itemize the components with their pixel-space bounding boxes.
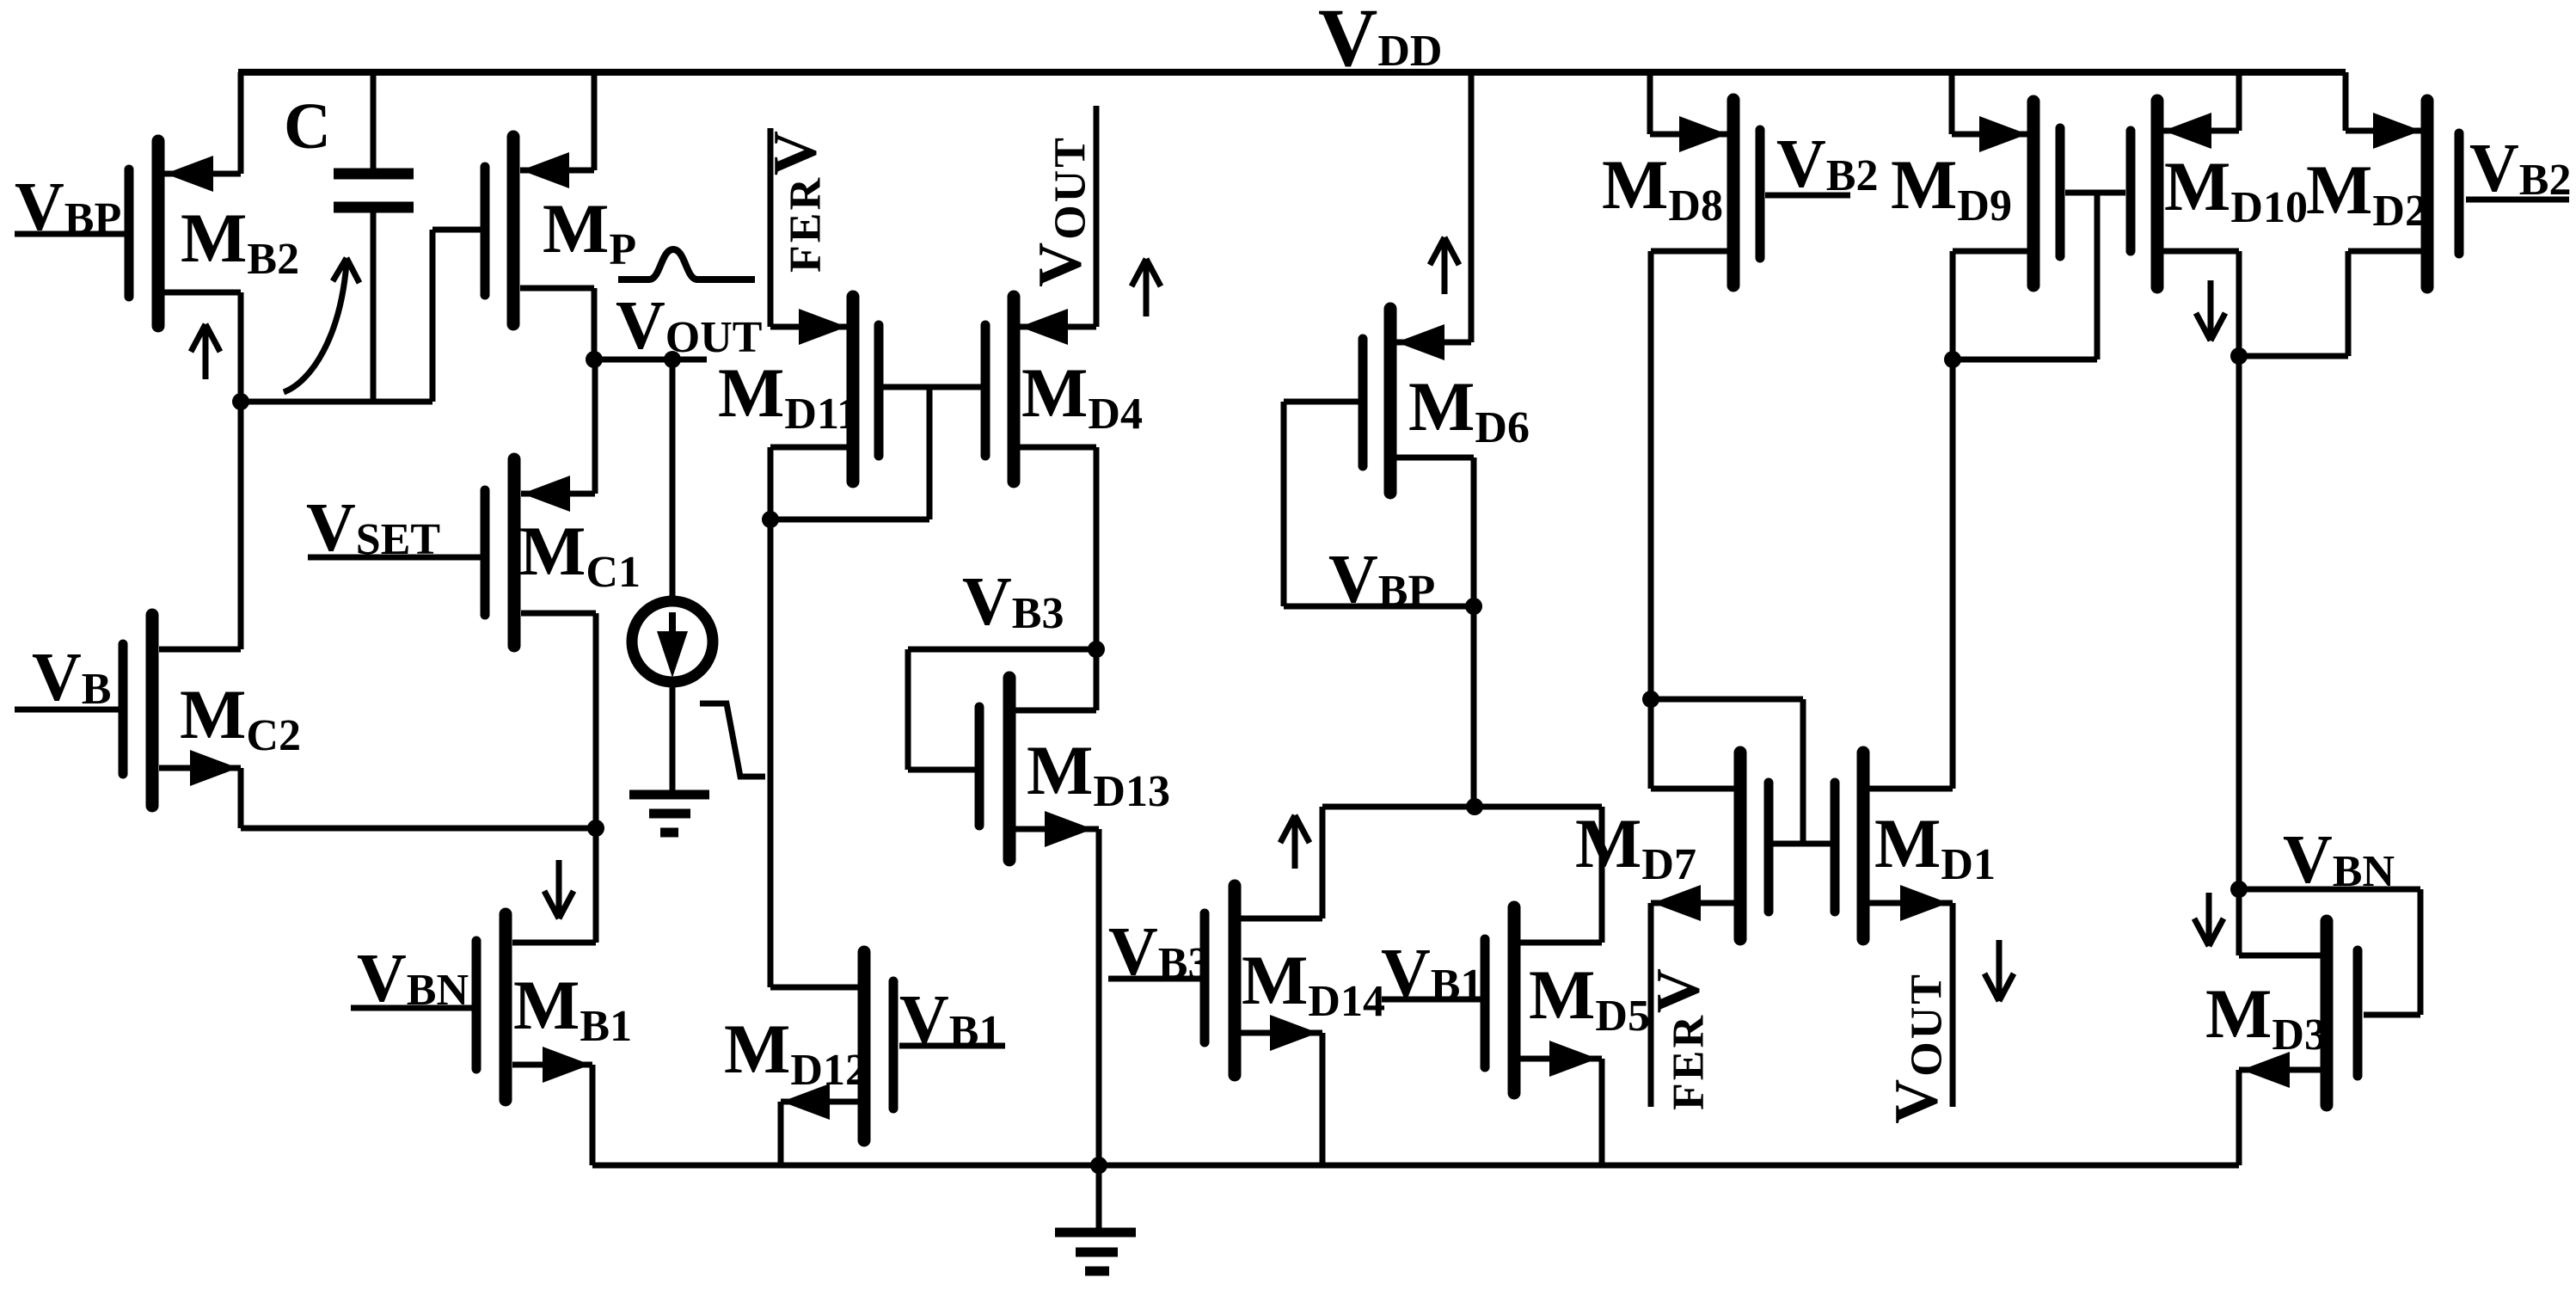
- svg-text:V: V: [1644, 968, 1713, 1013]
- svg-text:V: V: [761, 131, 830, 175]
- svg-text:V: V: [1882, 1079, 1951, 1124]
- svg-text:E: E: [1665, 1051, 1714, 1081]
- svg-text:R: R: [1665, 1015, 1714, 1048]
- svg-text:O: O: [1903, 1041, 1952, 1076]
- svg-text:T: T: [1903, 974, 1952, 1004]
- svg-text:O: O: [1046, 205, 1095, 239]
- svg-text:V: V: [1026, 243, 1095, 287]
- svg-text:T: T: [1046, 138, 1095, 168]
- svg-text:E: E: [782, 213, 831, 243]
- svg-text:F: F: [1665, 1083, 1714, 1110]
- svg-text:R: R: [782, 177, 831, 211]
- svg-text:U: U: [1903, 1007, 1952, 1040]
- svg-text:U: U: [1046, 170, 1095, 203]
- svg-text:C: C: [284, 90, 331, 163]
- svg-text:F: F: [782, 245, 831, 273]
